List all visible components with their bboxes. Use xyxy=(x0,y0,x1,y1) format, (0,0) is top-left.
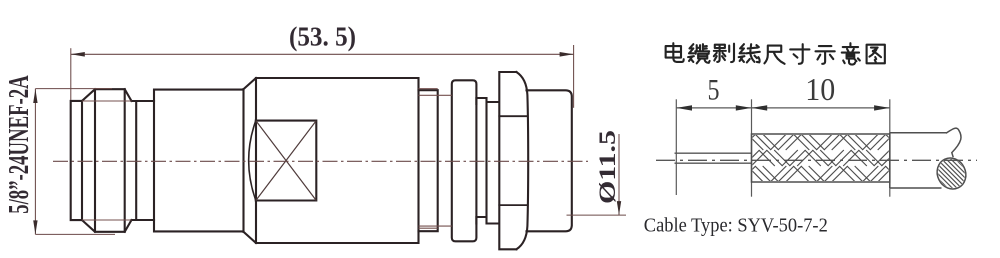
thread callout leader lines xyxy=(35,89,115,235)
front cylinder (interface end) xyxy=(71,101,82,220)
braid weave hatch xyxy=(724,134,916,182)
center conductor xyxy=(675,153,752,163)
svg-text:10: 10 xyxy=(805,71,835,107)
hex flat lines xyxy=(499,116,527,205)
cone transition behind thread xyxy=(125,89,154,232)
hex nut outline xyxy=(499,72,528,249)
thread section outline xyxy=(82,89,125,232)
svg-text:5: 5 xyxy=(708,73,720,106)
jacket outline xyxy=(890,128,971,194)
barrel section xyxy=(154,89,244,232)
arrow left of 53.5 xyxy=(71,52,85,57)
thin inner lines (thread minor dia, ring2) xyxy=(82,89,452,229)
blob hatch xyxy=(936,158,966,188)
title char 2 xyxy=(688,44,710,63)
thread callout arrows xyxy=(33,89,37,103)
title char 1 xyxy=(666,43,684,62)
clamp ring 1 xyxy=(419,90,438,231)
title char 4 xyxy=(739,44,760,62)
gasket rings xyxy=(476,98,498,224)
clamp ring 2 edges xyxy=(419,94,452,96)
main body xyxy=(256,78,419,243)
extension lines xyxy=(676,99,890,196)
washer xyxy=(452,80,477,241)
cable dim arrows xyxy=(676,105,890,110)
rear cap xyxy=(527,90,572,231)
title char 5 xyxy=(764,46,784,64)
dia 11.5 dimension xyxy=(567,134,627,215)
title char 9 xyxy=(867,45,885,64)
center line main xyxy=(53,160,588,162)
title char 7 xyxy=(816,46,835,64)
title char 8 xyxy=(842,43,860,64)
svg-text:(53. 5): (53. 5) xyxy=(289,21,356,51)
thread minor diameter lines xyxy=(82,100,132,102)
braid outline xyxy=(752,134,890,182)
title char 6 xyxy=(790,44,809,64)
step chamfer to body xyxy=(244,78,257,243)
dim line 10 xyxy=(752,107,890,109)
title char 3 xyxy=(714,44,734,62)
cable center line xyxy=(656,159,977,161)
arrow right of 53.5 xyxy=(560,52,574,57)
flat indicator square right+top+bottom edges xyxy=(256,121,316,201)
svg-text:Cable Type: SYV-50-7-2: Cable Type: SYV-50-7-2 xyxy=(644,215,828,237)
flat indicator arc (left bulge) xyxy=(249,121,256,201)
jacket torn end xyxy=(946,128,961,157)
dim line 5 xyxy=(676,107,751,109)
blob (cut braid end) xyxy=(932,153,971,194)
diagonal X line 1 xyxy=(256,121,316,201)
svg-text:5/8”-24UNEF-2A: 5/8”-24UNEF-2A xyxy=(4,75,35,214)
dia arrow xyxy=(617,201,621,215)
diagonal X line 2 xyxy=(256,121,316,201)
flat square diagonals xyxy=(256,121,316,201)
dimension 53.5 xyxy=(71,45,574,108)
svg-text:Ø11.5: Ø11.5 xyxy=(595,130,620,204)
